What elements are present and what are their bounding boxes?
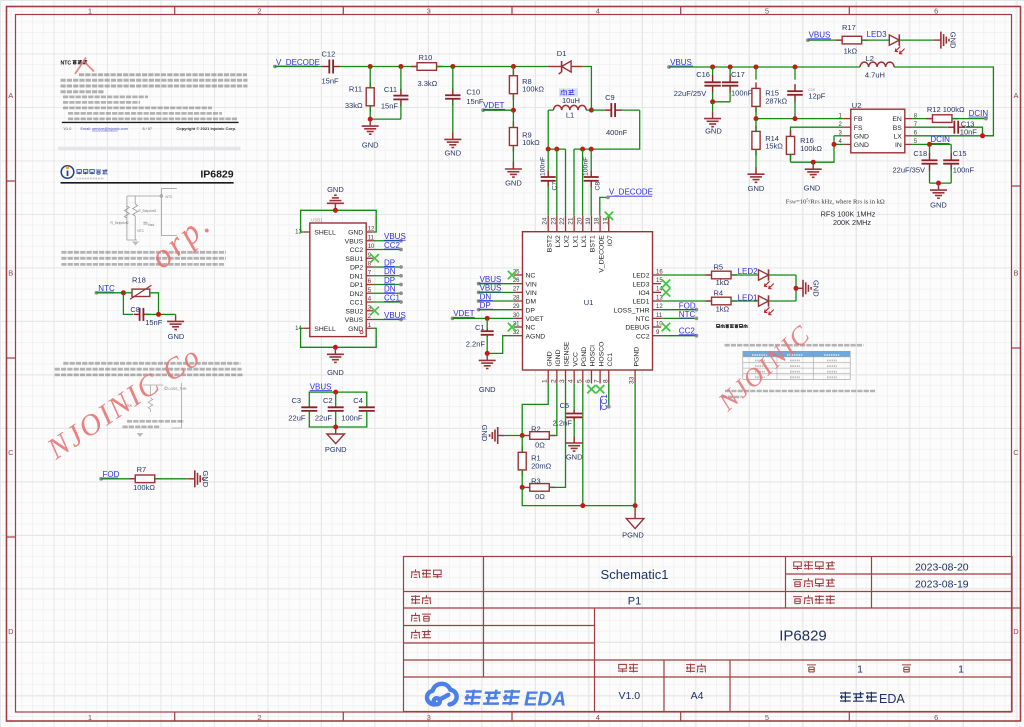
svg-text:AGND: AGND — [526, 333, 546, 340]
net label CC2 USB1 row — [373, 249, 401, 251]
ground under C5 — [566, 436, 583, 451]
svg-text:LX2: LX2 — [564, 235, 571, 247]
net label NTC — [95, 291, 99, 295]
svg-text:FS: FS — [854, 125, 863, 132]
svg-text:7: 7 — [594, 379, 601, 383]
svg-text:V1.0: V1.0 — [64, 127, 72, 131]
svg-text:CC2: CC2 — [350, 247, 364, 254]
capacitor C7 100nF (bootstrap) — [547, 149, 549, 171]
svg-text:LED1: LED1 — [632, 299, 649, 306]
wire R10 to D1 — [437, 66, 548, 68]
svg-text:1kΩ: 1kΩ — [716, 305, 730, 314]
capacitor C2 22uF — [335, 392, 337, 407]
U1 pin 31 NC — [514, 326, 523, 328]
U1 pin 3 ISENSE — [565, 370, 567, 383]
svg-text:C: C — [8, 448, 14, 457]
svg-text:SBU2: SBU2 — [345, 308, 363, 315]
svg-text:GND: GND — [748, 184, 765, 193]
wire bus to pin22 — [565, 149, 567, 216]
U2 pin 6 LX — [905, 135, 913, 137]
svg-text:LX1: LX1 — [581, 235, 588, 247]
svg-text:1: 1 — [542, 379, 549, 383]
no-connect X pin31 — [508, 323, 516, 331]
ground under R14 — [748, 167, 765, 182]
svg-text:PGND: PGND — [581, 347, 588, 367]
wire IN row — [912, 143, 951, 145]
svg-text:0Ω: 0Ω — [535, 441, 545, 450]
ground under R11 — [362, 119, 379, 134]
U1 pin 17 IO7 — [608, 216, 610, 232]
svg-text:DP2: DP2 — [350, 265, 363, 272]
svg-text:2: 2 — [550, 379, 557, 383]
U1 pin 8 CC1 — [608, 370, 610, 383]
wire R3 to pin3 — [549, 383, 565, 487]
svg-text:VDET: VDET — [526, 316, 544, 323]
svg-text:4.7uH: 4.7uH — [865, 71, 885, 80]
U2 pin 2 FS — [843, 126, 851, 128]
net label VBUS pin26 — [477, 282, 481, 286]
U1 pin 15 LED3 — [653, 283, 662, 285]
wire VBUS caps top rail — [309, 392, 367, 407]
svg-text:SHELL: SHELL — [314, 230, 336, 237]
resistor R7 100k — [129, 478, 135, 480]
resistor R2 0R — [524, 435, 530, 437]
ground under C16/C17 — [712, 102, 714, 112]
svg-text:22uF: 22uF — [288, 414, 306, 423]
ground left of R2 (rotated) — [505, 435, 523, 437]
wire bus to pin23 — [556, 149, 558, 216]
svg-text:D: D — [1013, 627, 1019, 636]
datasheet page image 1: NTC section — [61, 60, 248, 131]
net label DN USB1 row — [373, 275, 401, 277]
resistor R16 100k — [790, 130, 792, 136]
wire C9 right down to LX bus — [574, 110, 640, 149]
LED2 — [731, 274, 759, 276]
svg-text:15kΩ: 15kΩ — [765, 142, 783, 151]
svg-text:NC: NC — [526, 273, 536, 280]
svg-text:VBUS: VBUS — [670, 58, 692, 67]
no-connect X SBU2 — [371, 307, 379, 315]
resistor R10 3.3k — [411, 66, 417, 68]
EasyEDA logo — [427, 684, 457, 705]
net label DP USB1 row — [373, 266, 401, 268]
USB1 pin 3 SBU2 — [366, 310, 373, 312]
wire C12 to R10 — [339, 66, 418, 68]
ground LED3 (rotated) — [934, 32, 949, 49]
svg-text:4: 4 — [568, 379, 575, 383]
svg-text:DCIN: DCIN — [930, 135, 950, 144]
svg-text:C8: C8 — [130, 305, 140, 314]
svg-text:R_Setpoint1: R_Setpoint1 — [138, 209, 156, 213]
ground NTC network — [167, 314, 184, 329]
svg-text:100kΩ: 100kΩ — [800, 144, 822, 153]
svg-text:GND: GND — [930, 201, 947, 210]
resistor R9 10k — [512, 122, 514, 128]
wire pin16 to R5 — [661, 274, 713, 276]
svg-text:8 / 97: 8 / 97 — [143, 127, 153, 131]
net label VBUS USB1 row — [373, 319, 401, 321]
U1 pin 23 LX2 — [556, 216, 558, 232]
net label VBUS (rail) — [667, 65, 671, 69]
U1 pin 12 LOSS_THR — [653, 309, 662, 311]
svg-text:V_DECODE: V_DECODE — [609, 188, 653, 197]
svg-text:NTC: NTC — [679, 310, 696, 319]
svg-text:VDET: VDET — [483, 101, 504, 110]
ground LED1/LED2 (rotated) — [795, 287, 797, 289]
capacitor C8 15nF (NTC) — [134, 313, 140, 315]
U1 pin 10 DEBUG — [653, 326, 662, 328]
svg-text:Copyright © 2021 Injoinic Corp: Copyright © 2021 Injoinic Corp. — [176, 126, 236, 131]
svg-text:2.2nF: 2.2nF — [553, 418, 573, 427]
svg-text:D1: D1 — [557, 49, 567, 58]
svg-text:BS: BS — [893, 125, 903, 132]
wire C18/C15 to GND — [930, 182, 952, 184]
wire pin33 down — [634, 383, 636, 505]
svg-text:CC2: CC2 — [636, 333, 650, 340]
resistor R4 1k — [706, 300, 712, 302]
svg-text:VBUS: VBUS — [384, 311, 406, 320]
svg-text:2: 2 — [257, 6, 261, 15]
svg-text:VBUS: VBUS — [310, 383, 332, 392]
svg-text:PGND: PGND — [325, 445, 347, 454]
svg-text:CC1: CC1 — [350, 300, 364, 307]
svg-text:C12: C12 — [322, 50, 336, 59]
svg-text:5: 5 — [576, 379, 583, 383]
svg-text:R18: R18 — [132, 275, 146, 284]
no-connect X SBU1 — [371, 254, 379, 262]
svg-text:V1.0: V1.0 — [618, 690, 640, 702]
svg-text:CC1: CC1 — [607, 353, 614, 367]
svg-text:IN: IN — [895, 142, 902, 149]
svg-text:C: C — [1013, 448, 1019, 457]
svg-text:GND: GND — [201, 470, 210, 487]
capacitor C16 22uF/25V — [712, 67, 714, 76]
svg-text:EDA: EDA — [524, 689, 566, 711]
title block labels — [411, 569, 420, 578]
capacitor C5 2.2nF — [573, 383, 575, 409]
svg-text:DP: DP — [480, 301, 491, 310]
svg-text:22uF: 22uF — [315, 414, 333, 423]
U2 pin 1 FB — [843, 118, 851, 120]
svg-text:22: 22 — [559, 217, 566, 225]
svg-text:GND: GND — [327, 368, 344, 377]
svg-text:1: 1 — [88, 713, 92, 722]
svg-text:NTC: NTC — [137, 229, 144, 233]
no-connect X pin14 — [662, 288, 670, 296]
svg-text:LED3: LED3 — [632, 281, 649, 288]
capacitor C3 22uF — [308, 406, 310, 408]
wire USB1 bottom GND bus — [301, 328, 377, 347]
svg-text:27: 27 — [513, 287, 520, 293]
svg-text:1: 1 — [88, 6, 92, 15]
svg-text:2: 2 — [257, 713, 261, 722]
resistor R15 287k — [755, 67, 757, 80]
resistor R5 1k — [706, 274, 712, 276]
svg-text:C5: C5 — [560, 401, 570, 410]
svg-text:D: D — [8, 627, 14, 636]
svg-text:VBUS: VBUS — [384, 232, 406, 241]
svg-text:NTC: NTC — [61, 60, 72, 66]
svg-text:R12 100kΩ: R12 100kΩ — [927, 105, 965, 114]
svg-text:FOD: FOD — [103, 470, 120, 479]
svg-text:33kΩ: 33kΩ — [345, 101, 363, 110]
svg-text:10kΩ: 10kΩ — [522, 138, 540, 147]
no-connect X pin25 — [508, 271, 516, 279]
U1 pin 22 LX2 — [565, 216, 567, 232]
svg-text:100nF: 100nF — [583, 157, 590, 176]
thermistor R18 — [123, 292, 132, 294]
wire L1 left down to BST2 bus — [548, 110, 565, 149]
no-connect X pin6 — [587, 385, 595, 393]
junction node C12/R11 — [368, 64, 373, 69]
net label FOD — [99, 477, 103, 481]
svg-text:C16: C16 — [696, 70, 710, 79]
svg-text:P1: P1 — [628, 596, 641, 608]
svg-text:8: 8 — [602, 379, 609, 383]
svg-text:1kΩ: 1kΩ — [716, 278, 730, 287]
svg-text:DP: DP — [384, 276, 395, 285]
svg-text:C4: C4 — [353, 396, 363, 405]
svg-text:6: 6 — [934, 6, 938, 15]
svg-text:NTC: NTC — [166, 195, 174, 199]
PGND symbol caps — [335, 427, 337, 434]
svg-text:200K 2MHz: 200K 2MHz — [833, 218, 871, 227]
svg-text:3: 3 — [427, 713, 431, 722]
svg-text:NC: NC — [526, 325, 536, 332]
capacitor C1 2.2nF — [486, 318, 488, 331]
svg-text:LOSS_THR: LOSS_THR — [614, 307, 650, 314]
svg-text:VBUS: VBUS — [480, 284, 502, 293]
svg-text:DN2: DN2 — [350, 291, 364, 298]
no-connect X pin15 — [662, 279, 670, 287]
U1 pin 20 LX1 — [582, 216, 584, 232]
inductor L1 10uH — [559, 88, 578, 96]
svg-text:Email: service@injoinic.com: Email: service@injoinic.com — [81, 127, 128, 131]
resistor R1 20mR — [521, 446, 523, 452]
svg-text:C15: C15 — [953, 149, 967, 158]
wire L2 to LX — [894, 67, 993, 136]
no-connect X pin10 — [662, 323, 670, 331]
svg-text:2023-08-20: 2023-08-20 — [915, 561, 969, 573]
svg-text:29: 29 — [513, 304, 520, 310]
wires LEDs to GND — [769, 274, 797, 276]
svg-text:LED2: LED2 — [738, 267, 759, 276]
svg-text:100kΩ: 100kΩ — [133, 483, 155, 492]
svg-text:0Ω: 0Ω — [535, 492, 545, 501]
U1 pin 14 IO4 — [653, 291, 662, 293]
ground under R16 — [805, 162, 822, 177]
svg-text:C10: C10 — [466, 88, 480, 97]
svg-text:IP6829: IP6829 — [779, 628, 827, 645]
capacitor C12 15nF — [322, 66, 329, 68]
U1 pin 29 DP — [514, 309, 523, 311]
svg-text:C3: C3 — [292, 396, 302, 405]
svg-text:C7: C7 — [552, 182, 559, 191]
svg-text:HOSCI: HOSCI — [590, 345, 597, 367]
svg-text:GND: GND — [705, 126, 722, 135]
svg-text:VIN: VIN — [526, 290, 537, 297]
net label CC1 USB1 row — [373, 301, 401, 303]
svg-text:C17: C17 — [731, 70, 745, 79]
USB1 pin 14 SHELL — [303, 327, 310, 329]
svg-text:15nF: 15nF — [145, 318, 163, 327]
svg-text:GND: GND — [546, 351, 553, 366]
U1 pin 11 NTC — [653, 317, 662, 319]
svg-text:ISENSE: ISENSE — [564, 341, 571, 366]
ground under C18/C15 — [930, 183, 947, 198]
svg-text:12pF: 12pF — [808, 92, 826, 101]
resistor R3 0R — [524, 486, 530, 488]
svg-text:DN1: DN1 — [350, 273, 364, 280]
svg-text:LED1: LED1 — [738, 293, 759, 302]
U1 pin 9 CC2 — [653, 335, 662, 337]
svg-text:400nF: 400nF — [606, 128, 628, 137]
ground above USB1 (flipped) — [327, 195, 344, 210]
svg-text:DN: DN — [384, 267, 396, 276]
USB1 pin 7 DN1 — [366, 275, 373, 277]
U2 pin 4 GND — [843, 143, 851, 145]
svg-text:Vout: Vout — [148, 223, 154, 227]
svg-text:IGND: IGND — [555, 349, 562, 366]
svg-text:VBUS: VBUS — [809, 30, 831, 39]
svg-text:Schematic1: Schematic1 — [601, 567, 669, 582]
svg-text:LX1: LX1 — [572, 235, 579, 247]
U1 pin 19 BST1 — [590, 216, 592, 232]
svg-text:5: 5 — [765, 6, 769, 15]
watermark fragment page1 — [75, 58, 94, 75]
svg-text:15nF: 15nF — [322, 77, 340, 86]
svg-text:B: B — [8, 269, 13, 278]
svg-text:VCC: VCC — [572, 352, 579, 366]
svg-text:GND: GND — [812, 280, 821, 297]
svg-text:LX: LX — [893, 133, 902, 140]
U1 pin 2 IGND — [556, 370, 558, 383]
svg-text:GND: GND — [348, 326, 363, 333]
svg-text:R_Setpoint2: R_Setpoint2 — [111, 221, 129, 225]
connector USB1 — [310, 223, 366, 337]
svg-text:R5: R5 — [714, 262, 724, 271]
net label VBUS USB1 row — [373, 240, 401, 242]
svg-text:V_DECODE: V_DECODE — [276, 58, 320, 67]
svg-text:DP: DP — [526, 307, 536, 314]
svg-text:L1: L1 — [566, 110, 574, 119]
svg-text:GND: GND — [949, 32, 958, 49]
datasheet image 4: LED status table — [716, 324, 876, 397]
USB1 pin 13 SHELL — [303, 231, 310, 233]
wire R18 right / C8 — [150, 293, 159, 315]
wire R16 bottom / U2 GND pins — [791, 136, 835, 162]
VBUS rail wire — [669, 66, 860, 68]
USB1 pin 5 DN2 — [366, 292, 373, 294]
wire V_DECODE to C12 — [275, 66, 324, 68]
U1 pin 7 HOSCO — [599, 370, 601, 383]
wire R7 to GND — [155, 478, 188, 480]
svg-text:DP1: DP1 — [350, 282, 363, 289]
USB1 pin 9 SBU1 — [366, 257, 373, 259]
svg-text:R11: R11 — [349, 85, 362, 94]
no-connect X pin7 — [596, 385, 604, 393]
svg-text:100nF: 100nF — [953, 166, 975, 175]
resistor R12 100k — [912, 118, 932, 120]
svg-text:VBUS: VBUS — [345, 238, 364, 245]
svg-text:C1: C1 — [475, 323, 485, 332]
U1 pin 28 DM — [514, 300, 523, 302]
svg-text:VIN: VIN — [526, 281, 537, 288]
USB1 pin 2 VBUS — [366, 319, 373, 321]
LED1 — [731, 300, 759, 302]
U1 pin 13 LED1 — [653, 300, 662, 302]
svg-text:4: 4 — [596, 6, 600, 15]
svg-text:B: B — [1013, 269, 1018, 278]
wire LED3 to GND — [899, 39, 934, 41]
svg-text:R4: R4 — [714, 289, 724, 298]
capacitor C13 10nF — [912, 126, 947, 128]
svg-text:30: 30 — [513, 313, 520, 319]
USB1 pin 4 CC1 — [366, 301, 373, 303]
U2 pin 8 EN — [905, 118, 913, 120]
capacitor C17 100nF — [729, 67, 731, 76]
svg-text:LED2: LED2 — [632, 273, 649, 280]
svg-text:24: 24 — [542, 217, 549, 225]
svg-text:28: 28 — [513, 295, 520, 301]
svg-text:GND: GND — [327, 185, 344, 194]
svg-text:A4: A4 — [691, 690, 704, 702]
wire R17 to LED3 — [862, 39, 890, 41]
wire pin13 to R4 — [661, 300, 713, 302]
svg-text:3: 3 — [559, 379, 566, 383]
svg-text:GND: GND — [505, 179, 522, 188]
ground FOD (rotated) — [188, 470, 203, 487]
svg-text:1kΩ: 1kΩ — [844, 47, 858, 56]
U1 pin 33 PGND — [634, 370, 636, 383]
capacitor C19 12pF — [794, 67, 796, 80]
resistor R11 33k — [369, 82, 371, 88]
svg-text:GND: GND — [480, 425, 489, 442]
datasheet page image 2: IP6829 header + NTC figure — [58, 147, 241, 265]
svg-text:26: 26 — [513, 278, 520, 284]
svg-text:DM: DM — [526, 299, 537, 306]
svg-text:33: 33 — [629, 376, 636, 384]
svg-text:287kΩ: 287kΩ — [765, 96, 787, 105]
ground C1/AGND — [479, 353, 496, 368]
net label DN pin28 — [477, 299, 481, 303]
net label DP pin29 — [477, 308, 481, 312]
svg-text:R2: R2 — [531, 424, 541, 433]
capacitor C8 100nF (bootstrap) — [590, 149, 592, 171]
svg-text:A: A — [1013, 91, 1018, 100]
svg-text:VBUS: VBUS — [480, 275, 502, 284]
net label CC2 pin9 — [661, 335, 696, 337]
svg-text:GND: GND — [348, 230, 363, 237]
svg-text:GND: GND — [444, 149, 461, 158]
svg-text:LED3: LED3 — [867, 30, 888, 39]
svg-text:BST1: BST1 — [590, 235, 597, 252]
U1 pin 16 LED2 — [653, 274, 662, 276]
svg-text:DN: DN — [384, 285, 396, 294]
svg-text:CC1: CC1 — [384, 293, 401, 302]
net label NTC pin11 — [661, 317, 696, 319]
net label V_DECODE — [273, 65, 277, 69]
net label DN USB1 row — [373, 292, 401, 294]
svg-text:3: 3 — [427, 6, 431, 15]
net label V_DECODE at pin18 — [600, 197, 608, 215]
net label VBUS (LED3) — [806, 38, 810, 42]
svg-text:C18: C18 — [913, 149, 927, 158]
svg-text:C9: C9 — [605, 93, 615, 102]
svg-text:32: 32 — [513, 330, 520, 336]
svg-text:DCIN: DCIN — [969, 109, 989, 118]
PGND symbol — [634, 506, 636, 519]
